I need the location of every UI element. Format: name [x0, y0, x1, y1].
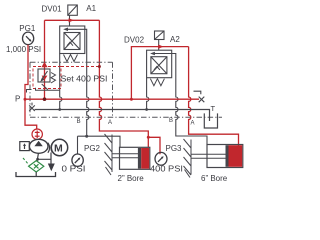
cylinder CYL2 mount hatching: [184, 139, 192, 178]
check arrows DV01: [67, 42, 73, 46]
needle tip PG2: [78, 157, 81, 160]
wire pump suction: [37, 153, 38, 160]
svg-text:A: A: [108, 120, 112, 126]
gauge PG3: [155, 152, 167, 165]
check arrows DV02: [154, 66, 160, 70]
svg-text:A2: A2: [170, 35, 180, 44]
junction suction-drain: [36, 158, 39, 161]
plug T end: [29, 103, 35, 111]
arrow relief: [40, 77, 44, 82]
cylinder CYL2 body: [207, 145, 243, 168]
pump P1: [29, 139, 48, 153]
arrow DV02 internal: [150, 52, 155, 56]
svg-text:2” Bore: 2” Bore: [118, 174, 145, 183]
svg-text:DV01: DV01: [42, 5, 63, 14]
wire P rail (red): [25, 98, 199, 100]
pump compensator box: [20, 142, 30, 151]
coupling pump-motor: [48, 143, 53, 153]
tank reservoir: [16, 172, 56, 177]
svg-text:0 PSI: 0 PSI: [62, 165, 86, 174]
solenoid DV02: [155, 31, 165, 50]
plug P end: [194, 91, 205, 102]
svg-text:P: P: [15, 95, 20, 104]
svg-text:1,000 PSI: 1,000 PSI: [6, 45, 41, 54]
bracket gauge port: [27, 90, 32, 93]
tank T: [204, 113, 217, 128]
valve DV01 body: [60, 26, 85, 54]
junction P-DV02: [130, 98, 133, 101]
cylinder CYL2 piston: [226, 145, 229, 167]
wire T rail (dark): [35, 110, 210, 122]
junction drain2-T: [145, 108, 148, 111]
wire DV02 work line B2 (dark): [172, 54, 207, 145]
spring relief: [51, 73, 56, 84]
wire A1 riser (red): [99, 20, 148, 147]
spring DV02: [150, 79, 164, 86]
arrow DV01 internal: [63, 28, 68, 32]
svg-text:B: B: [77, 119, 81, 125]
cylinder CYL2 fluid (red): [229, 145, 243, 167]
wire DV02 feed (red): [131, 47, 188, 100]
relief diagonal to tank: [42, 84, 48, 90]
junction P-relief: [43, 97, 47, 101]
wire DV01 work line B (dark): [85, 29, 89, 136]
svg-text:A1: A1: [86, 4, 96, 13]
cylinder CYL1 fluid (red): [141, 148, 149, 169]
svg-text:M: M: [54, 143, 63, 155]
enclosure manifold (dash-dot): [30, 62, 222, 117]
filter F1 (green): [29, 161, 44, 172]
cylinder CYL1 body: [120, 147, 150, 169]
arrow compensator: [23, 143, 26, 146]
gauge PG2: [72, 154, 83, 166]
drain line: [50, 153, 52, 164]
svg-text:PG2: PG2: [84, 144, 101, 153]
svg-text:Set 400 PSI: Set 400 PSI: [61, 75, 108, 84]
motor M1: [51, 139, 67, 155]
junction B1: [85, 135, 88, 138]
arrow up on riser: [41, 62, 47, 67]
needle tip PG1: [29, 39, 32, 42]
filter pilot dashes (green): [23, 158, 29, 165]
relief valve RV1: [38, 69, 50, 82]
relief drain line (dark): [36, 88, 60, 91]
svg-text:6” Bore: 6” Bore: [201, 174, 228, 183]
wire DV01 drain (dark): [60, 54, 62, 110]
drain arrow to tank: [48, 164, 55, 172]
wire PG2 stem (dark): [77, 136, 79, 154]
valve DV02 body: [147, 50, 172, 77]
wire DV02 drain (dark): [147, 78, 149, 110]
arrow down on riser: [42, 76, 48, 81]
junction pilot-A1: [98, 65, 101, 68]
cylinder CYL1 piston: [138, 148, 141, 169]
svg-text:B: B: [169, 118, 173, 124]
cylinder CYL1 rod: [112, 154, 139, 158]
wire filter to tank: [35, 172, 37, 177]
svg-text:PG3: PG3: [166, 144, 183, 153]
check valve CV1 (red): [32, 129, 42, 139]
wire PG1 riser (red): [44, 20, 46, 99]
pump P1 triangle: [34, 141, 42, 146]
cylinder CYL1 mount hatching: [105, 134, 113, 175]
arrow flow A2: [158, 45, 163, 49]
cylinder CYL2 rod: [191, 154, 226, 158]
junction drain1-T: [58, 108, 61, 111]
arrow flow A1: [69, 18, 74, 22]
wire PG3 stem (red): [148, 137, 160, 154]
wire DV01 feed (red): [45, 19, 100, 21]
gauge PG1: [23, 32, 34, 45]
svg-text:T: T: [211, 104, 216, 113]
wire A2 riser (red): [189, 47, 239, 146]
solenoid DV01: [68, 5, 78, 26]
wire pump to P (red): [25, 99, 37, 129]
needle tip PG3: [161, 156, 164, 159]
svg-text:400 PSI: 400 PSI: [150, 165, 183, 174]
junction P-pump: [24, 98, 27, 101]
junction A1-PG3: [147, 136, 150, 139]
wire drain tee: [38, 158, 51, 160]
spring DV01: [64, 55, 78, 62]
relief pilot box (red dashed): [33, 67, 61, 89]
wire PG1 stem to P (red): [25, 45, 28, 99]
svg-text:A: A: [191, 121, 195, 127]
wire B1 to PG2 and cylinder (dark): [78, 136, 121, 147]
pilot line relief to A1 (red dashed): [61, 66, 99, 68]
svg-text:DV02: DV02: [124, 36, 145, 45]
